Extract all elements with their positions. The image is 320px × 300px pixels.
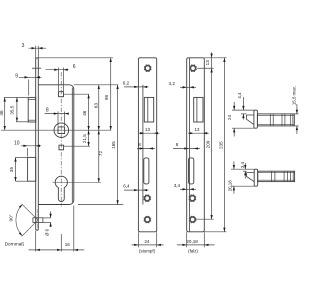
- svg-text:10: 10: [14, 140, 20, 146]
- svg-text:20,18: 20,18: [228, 180, 233, 192]
- svg-text:24: 24: [227, 115, 232, 121]
- svg-text:16: 16: [65, 242, 71, 247]
- svg-text:9: 9: [15, 74, 18, 80]
- svg-text:13: 13: [205, 60, 210, 66]
- svg-text:46: 46: [82, 110, 87, 116]
- svg-text:8: 8: [176, 142, 179, 147]
- svg-text:20,18: 20,18: [186, 239, 198, 244]
- svg-text:235: 235: [219, 141, 224, 149]
- svg-text:24: 24: [144, 239, 150, 244]
- svg-text:6: 6: [73, 64, 76, 70]
- svg-text:15,5 max.: 15,5 max.: [291, 86, 296, 105]
- svg-text:72: 72: [98, 151, 103, 157]
- svg-text:Dornmaß: Dornmaß: [5, 242, 25, 247]
- svg-text:63: 63: [93, 103, 98, 109]
- svg-text:(stumpf): (stumpf): [139, 249, 156, 254]
- svg-text:98: 98: [104, 95, 109, 101]
- svg-text:35,5: 35,5: [9, 105, 14, 114]
- svg-text:Ø 6: Ø 6: [45, 228, 50, 236]
- svg-text:4,4: 4,4: [237, 92, 242, 99]
- svg-text:165: 165: [111, 141, 116, 149]
- svg-text:6,2: 6,2: [123, 80, 130, 85]
- svg-text:3: 3: [22, 43, 25, 49]
- svg-text:90°: 90°: [8, 214, 13, 221]
- svg-text:3,2: 3,2: [169, 81, 176, 86]
- svg-text:8: 8: [138, 142, 141, 147]
- svg-text:46: 46: [0, 110, 4, 116]
- svg-text:3,4: 3,4: [240, 161, 245, 168]
- svg-text:21,5: 21,5: [82, 134, 87, 143]
- svg-text:6,4: 6,4: [123, 184, 130, 189]
- svg-text:35: 35: [9, 167, 14, 173]
- svg-text:13: 13: [145, 127, 151, 132]
- svg-text:(falz): (falz): [188, 249, 198, 254]
- svg-text:3,4: 3,4: [174, 183, 181, 188]
- svg-text:209: 209: [206, 140, 211, 148]
- svg-text:8: 8: [46, 107, 49, 113]
- svg-text:13: 13: [194, 127, 200, 132]
